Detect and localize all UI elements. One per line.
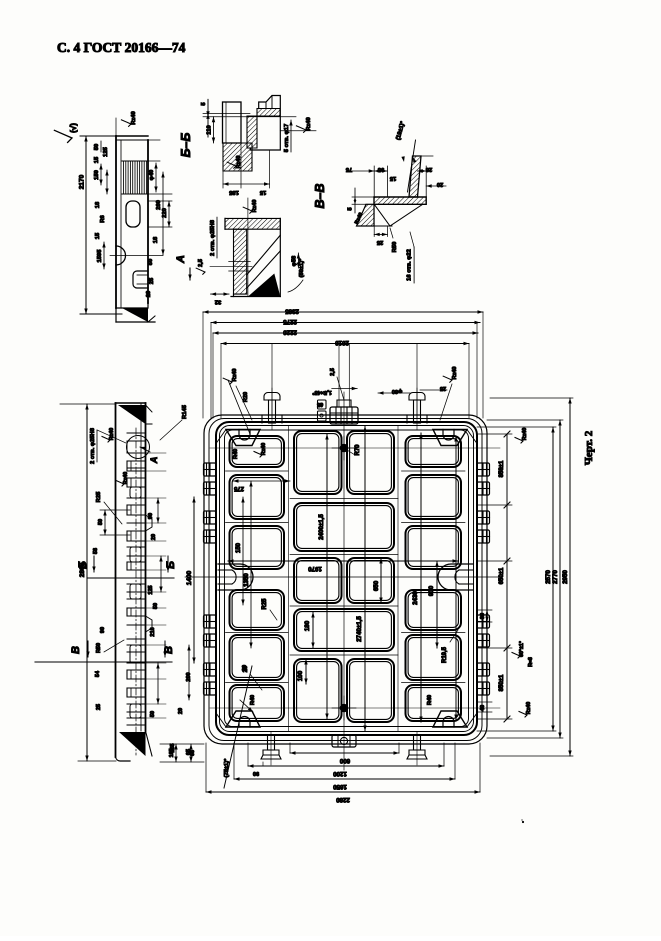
svg-text:90: 90 [148,513,154,519]
svg-text:Rz40: Rz40 [252,200,258,213]
svg-text:2,5: 2,5 [198,258,204,267]
svg-text:2570: 2570 [545,570,552,584]
svg-text:150: 150 [94,170,100,180]
dim 40 right bottom [477,701,492,703]
pockets column 1 [230,436,285,467]
callout 2 отв ф25Н8 left [96,430,98,462]
Б-Б extension+dims left [203,112,250,114]
stray speck [522,821,524,823]
svg-text:15: 15 [389,175,396,181]
В-В extension lines down [373,204,375,236]
svg-text:(50±1)°: (50±1)° [299,258,305,278]
svg-text:90: 90 [100,627,106,633]
svg-text:125: 125 [103,146,109,156]
latch detail left of fixture [318,400,327,409]
svg-text:25: 25 [149,277,155,284]
Rz40 inside Б-Б [227,162,236,168]
top lugs (T-bolts) [269,400,276,423]
svg-text:150: 150 [236,542,242,553]
svg-text:С. 4 ГОСТ 20166—74: С. 4 ГОСТ 20166—74 [57,40,186,55]
svg-text:16 отв. φ22: 16 отв. φ22 [407,249,413,281]
svg-text:650±1: 650±1 [499,567,505,584]
svg-text:32: 32 [215,299,221,305]
Б-Б bottom dims 185 / 15 [222,171,224,188]
svg-text:20: 20 [151,534,157,540]
dim col4 vertical [455,436,457,720]
dim 2400±1.5 vertical [326,434,328,719]
right dims 2570/2770/2950 [477,426,556,428]
В-В left wedge hatched [357,204,375,226]
svg-text:2010: 2010 [335,339,349,346]
svg-text:R40: R40 [233,449,239,459]
svg-text:600: 600 [339,757,350,764]
svg-text:А: А [149,457,159,465]
svg-text:850±1: 850±1 [499,674,505,691]
detail A hatched wall [234,229,247,294]
svg-text:R6: R6 [100,215,106,223]
svg-text:110: 110 [207,125,213,134]
svg-text:50: 50 [148,259,154,265]
Rz40 marks [102,437,110,443]
half-circle notch [116,246,126,265]
dim 1970 horizontal [228,560,458,562]
svg-text:R145: R145 [182,404,188,419]
svg-text:275: 275 [233,485,244,491]
svg-text:R70: R70 [355,444,361,456]
small dim lines right [157,498,159,523]
bottom foot wedge [116,303,148,308]
svg-text:Б–Б: Б–Б [179,133,193,158]
svg-text:25: 25 [376,239,383,245]
right side dims of strip [148,160,160,162]
svg-text:15: 15 [94,156,100,163]
svg-text:Rz40: Rz40 [131,111,137,125]
rib centrelines [226,470,289,472]
dim 2430 [420,433,422,722]
svg-text:650: 650 [373,580,380,591]
svg-text:50: 50 [150,711,156,717]
left small dims [100,164,102,185]
svg-text:100: 100 [297,670,304,681]
ribbed block [122,160,148,162]
detail A Rz40 top [243,207,252,213]
svg-text:R≈8: R≈8 [528,657,534,667]
svg-text:2385: 2385 [285,308,299,315]
В-В top dims [373,166,375,197]
dim 2170 [80,135,116,137]
detail A slope lines [247,235,281,275]
dim 39 right [477,609,492,611]
bottom feet [268,735,275,750]
svg-text:Rz40: Rz40 [522,428,528,440]
svg-text:R19,5: R19,5 [442,646,448,663]
svg-text:R40: R40 [250,695,256,705]
bolt dots [340,444,349,453]
svg-text:1200: 1200 [333,770,347,777]
callout 2 отв ф25Н8 [216,217,218,258]
svg-text:40: 40 [480,705,486,711]
svg-text:39: 39 [480,613,486,619]
svg-text:95: 95 [377,166,384,172]
svg-text:Rz40: Rz40 [232,368,238,381]
svg-text:60°±1°: 60°±1° [519,641,525,657]
svg-text:216: 216 [150,627,156,636]
dim 1350 [250,481,252,648]
svg-text:220: 220 [162,208,168,218]
svg-text:5 отв. φ17: 5 отв. φ17 [284,124,290,152]
svg-text:Черт. 2: Черт. 2 [583,430,595,465]
top foot wedge [118,405,146,424]
svg-text:R20: R20 [243,392,249,402]
dim 275 [233,480,290,482]
extension stubs right of strip [146,452,167,454]
svg-text:(√): (√) [69,123,78,133]
svg-text:75: 75 [345,166,352,172]
svg-text:858±1: 858±1 [499,460,505,477]
5 отв ф17 callout [290,120,292,152]
svg-text:2740±1,5: 2740±1,5 [356,616,363,642]
svg-text:1350: 1350 [244,573,250,587]
bottom foot of strip [119,732,146,756]
svg-text:φ58: φ58 [292,255,298,266]
strip internal features [135,428,137,755]
centre fixture extensions up [338,344,340,408]
svg-text:2400±1,5: 2400±1,5 [318,514,325,540]
svg-text:Rz40: Rz40 [306,117,312,131]
svg-text:1650: 1650 [333,783,347,790]
svg-text:2220: 2220 [283,329,297,336]
svg-text:Rz40: Rz40 [261,443,267,455]
detail A filled wedge bottom [248,274,280,297]
Б-Б step block right [250,96,280,151]
dim 180 [312,612,314,648]
svg-text:R40: R40 [427,695,433,705]
svg-text:900: 900 [428,585,435,596]
2,5 roughness [196,268,205,274]
svg-text:2 отв. φ25Н8: 2 отв. φ25Н8 [210,219,216,256]
Rz40 right marks [515,438,523,444]
svg-text:125: 125 [148,585,154,594]
svg-text:1970: 1970 [308,565,322,572]
svg-text:1595: 1595 [97,249,103,263]
right dims 858/650/850 [477,433,512,435]
svg-text:2950: 2950 [562,570,569,584]
svg-text:В–В: В–В [313,183,327,208]
В-В flange hatched [374,197,426,204]
surface finish symbol top-left [54,130,72,142]
svg-text:1,5×45°: 1,5×45° [312,389,332,395]
svg-text:25: 25 [96,704,102,710]
svg-text:50: 50 [98,519,104,525]
top leaders [223,378,232,384]
svg-text:20: 20 [437,181,443,187]
side strip body [115,403,117,757]
Б-Б rib rect [223,102,242,143]
В-В dim 5 left [352,196,374,198]
dim 2740±1.5 vertical [364,426,366,731]
svg-text:20: 20 [242,665,248,671]
bottom-left diagonal (75±1)° [224,666,252,788]
top centre fixture [330,407,358,424]
bottom dims 600/1200/1650/2280 [290,752,399,754]
panel main face [216,422,477,735]
panel centrelines [343,392,345,770]
svg-text:Б: Б [77,561,89,569]
svg-text:R25: R25 [262,598,268,610]
svg-text:φ40: φ40 [149,170,155,181]
right tab [133,271,148,288]
svg-text:2770: 2770 [552,570,559,584]
dim 32 [211,293,234,295]
pockets column 4 [406,436,462,467]
svg-text:29: 29 [146,290,152,297]
detail A vertical centerline [247,198,249,296]
svg-text:15: 15 [259,189,266,195]
В-В rib hatched (up) [409,156,421,197]
svg-text:1400: 1400 [186,570,193,585]
svg-text:2,5: 2,5 [330,368,336,376]
mid-edge bosses [218,564,253,590]
ф58 dim [297,253,299,268]
detail A hole centrelines [229,261,251,263]
16 отв ф22 callout [413,247,415,283]
detail A outline [224,218,226,229]
svg-text:2275: 2275 [283,318,297,325]
svg-text:Rz40: Rz40 [452,366,458,379]
svg-text:90: 90 [253,770,259,776]
svg-text:18: 18 [95,201,101,208]
detail A hatched flange [225,218,280,229]
corner gussets [226,430,260,446]
В-В dim 25 bottom [374,233,387,235]
Б-Б hatched flange L [223,143,252,171]
svg-text:R50: R50 [392,242,398,253]
dim 100 [305,659,307,684]
svg-text:165: 165 [169,749,175,758]
svg-text:20: 20 [178,708,184,714]
dim 150 [242,497,244,605]
svg-text:65: 65 [317,401,323,407]
strip small dims top [115,118,117,136]
svg-text:Rz40: Rz40 [526,702,532,714]
dim 900 [436,561,438,648]
dim 650 [380,558,382,603]
svg-text:Rz40: Rz40 [109,428,115,440]
pockets middle columns [294,431,342,494]
dims 165 65 left of bottom [160,743,204,745]
edge tabs left/right [204,463,217,476]
svg-text:А: А [175,255,187,264]
corner diagonal leader top-left [228,380,250,434]
dim 2860 [60,403,116,405]
Rz40 top [121,120,131,127]
svg-text:25: 25 [440,385,446,391]
svg-text:50: 50 [94,144,100,150]
svg-text:54: 54 [95,670,101,677]
svg-text:R50: R50 [96,643,102,653]
leader into corner [240,700,253,712]
svg-text:2 отв. φ25Н8: 2 отв. φ25Н8 [90,427,96,464]
strip body outline [115,136,117,308]
svg-text:15: 15 [95,232,101,239]
svg-text:185: 185 [228,189,238,195]
circle detail A on strip [127,436,150,459]
panel outer flange contour [204,415,487,744]
svg-text:R25: R25 [96,491,102,502]
svg-text:В: В [70,646,82,654]
slot stadium [126,201,140,227]
svg-text:2170: 2170 [79,174,86,189]
В-В rib projection triangle [374,204,390,226]
svg-text:180: 180 [304,620,311,631]
svg-text:58: 58 [93,548,99,554]
Rz40 right of Б-Б [280,130,316,132]
svg-text:28: 28 [425,166,432,172]
svg-text:2430: 2430 [412,591,419,605]
svg-text:18: 18 [153,236,159,243]
svg-text:2280: 2280 [336,796,350,803]
top dims 2385/2275/2220/2010 [203,311,483,313]
svg-text:200: 200 [186,672,192,681]
svg-text:65: 65 [190,750,196,756]
svg-text:50: 50 [153,603,159,609]
bottom centre fixture [332,735,356,747]
В-В (19±1)° slope line [408,140,416,192]
svg-text:(75±1)°: (75±1)° [224,758,230,778]
dim 1400 [193,497,195,663]
